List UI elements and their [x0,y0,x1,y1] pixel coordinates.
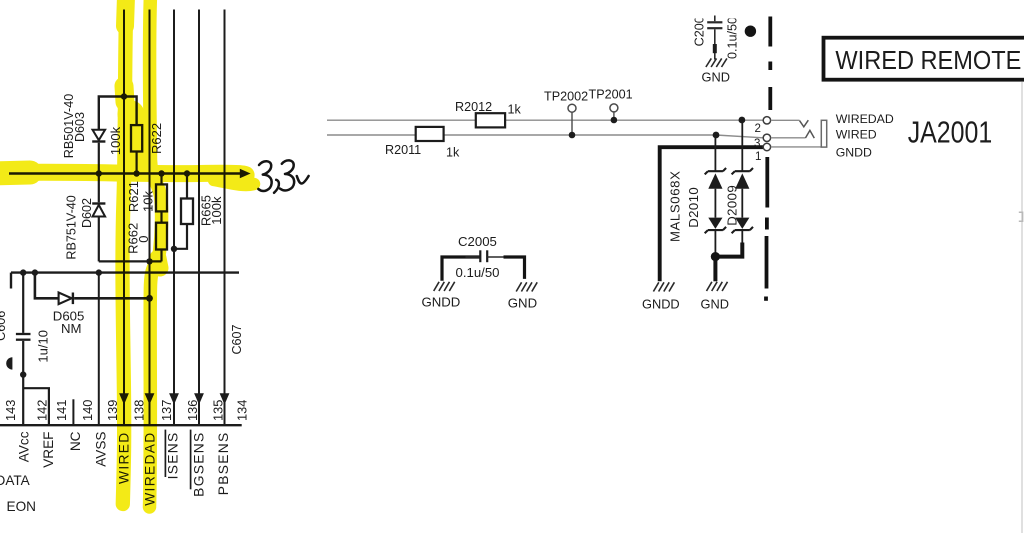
test point TP2001 [589,88,633,124]
pin label PBSENS [216,432,231,496]
pin label NC [68,431,83,451]
junction rail/R665 [184,170,190,176]
wire AVSS vertical (to pin 140) [98,273,100,425]
svg-text:GND: GND [702,70,730,85]
svg-text:AVSS: AVSS [94,432,109,467]
svg-text:100k: 100k [209,196,224,225]
junction bus/D605 branch [32,269,38,275]
junction on WIRED at top jog [121,93,127,99]
svg-text:EON: EON [7,499,36,514]
svg-text:141: 141 [54,400,69,421]
resistor R622 100k [108,123,164,172]
diode D602 RB751V-40 [65,175,106,262]
jack pin 1 terminal [755,143,771,163]
half-disc component cut at left edge [6,357,12,369]
junction WIREDAD/D605 [146,295,153,302]
pin number 138 [132,400,147,421]
svg-text:C2005: C2005 [458,234,497,249]
jack sleeve symbol [821,120,826,147]
pin label BGSENS with overline [191,430,207,497]
svg-text:VREF: VREF [41,432,56,468]
capacitor C2004 at top edge (cut) [693,9,740,59]
svg-text:WIREDAD: WIREDAD [836,112,894,126]
svg-text:RB751V-40: RB751V-40 [65,195,79,259]
pin label AVcc [17,431,32,462]
wire ISENS vertical line (to pin 137) [169,10,179,426]
svg-text:PBSENS: PBSENS [216,432,231,496]
pin number 134 [235,400,250,421]
pin label WIREDAD [143,432,158,506]
junction WIREDAD/node [146,258,152,264]
TVS diode D2009 (MALS068X) [724,120,753,243]
wire PBSENS vertical line (to pin 135) [220,10,230,426]
svg-text:140: 140 [80,400,95,421]
svg-text:135: 135 [210,400,225,421]
jack contact pin 3 [771,130,822,147]
boundary dash-dot line [766,17,770,301]
wire WIREDAD horizontal (to jack pin 2) [327,119,763,121]
svg-text:WIRED REMOTE: WIRED REMOTE [835,47,1021,75]
jack pin 2 terminal [755,117,771,136]
jack contact pin 2 [771,120,809,127]
resistor R662 0 [126,223,167,262]
junction ISENS/R665 [171,246,177,252]
wire pin141 stub [72,399,74,425]
svg-text:GND: GND [701,297,729,312]
ground symbol GNDD (jack) [653,282,674,291]
pin number 142 [34,400,49,421]
wire WIRED horizontal (to jack pin 3) [327,135,763,138]
svg-text:BGSENS: BGSENS [191,432,206,497]
thick GNDD wire (jack sleeve to ground) [660,147,764,281]
svg-text:R2012: R2012 [455,100,492,114]
pin label ISENS with overline [165,430,180,480]
svg-text:D2010: D2010 [686,187,701,228]
wire BGSENS vertical line (to pin 136) [194,10,204,426]
capacitor C606 partial label at edge [0,311,8,341]
svg-text:ISENS: ISENS [165,432,180,480]
ground symbol GNDD (C2005) [434,282,455,291]
wire node D602/R662/WIREDAD [99,260,162,262]
svg-text:GNDD: GNDD [642,297,680,312]
page edge faint line [1021,82,1023,533]
pin number 137 [159,400,174,421]
resistor R665 100k [174,175,224,249]
pin number 136 [185,400,200,421]
junction thick GND node [711,252,720,261]
junction WIRED/D2010 [713,132,720,139]
jack pin 3 terminal [754,134,771,150]
svg-text:C606: C606 [0,311,8,341]
svg-text:AVcc: AVcc [17,431,32,462]
pin number 139 [105,400,120,421]
svg-text:TP2001: TP2001 [589,88,633,102]
svg-text:WIRED: WIRED [836,128,877,142]
wire WIRED vertical line (to pin 139) [119,10,129,426]
junction rail/R621 [158,170,164,176]
wire pin143 and pin142 leads [23,375,49,425]
svg-text:1k: 1k [508,102,522,116]
pin label AVSS [94,432,109,467]
ground symbol GND (C2005) [516,282,537,291]
svg-text:0.1u/50: 0.1u/50 [456,265,500,280]
resistor R2012 1k [455,100,522,128]
pin number 143 [3,400,18,421]
ground symbol GND (TVS) [707,282,728,291]
svg-text:NM: NM [61,321,82,336]
capacitor 1u/10 [16,274,51,375]
svg-text:0: 0 [136,236,151,243]
svg-text:DATA: DATA [0,473,31,488]
wire top node jog (D603/R622 to WIRED) [99,97,137,130]
svg-text:1k: 1k [446,145,460,159]
wire 3.3V rail with arrow [9,169,251,179]
diode D605 NM [35,273,150,336]
resistor R2011 1k [385,127,460,159]
svg-text:NC: NC [68,431,83,451]
junction rail/R622 [133,170,139,176]
TVS diode D2010 (MALS068X) upper string [667,135,726,253]
svg-text:GNDD: GNDD [422,294,461,309]
svg-text:R2011: R2011 [385,143,421,157]
svg-text:D2009: D2009 [724,185,739,226]
svg-text:MALS068X: MALS068X [667,171,682,243]
junction C606/pin143 node [20,371,26,377]
svg-text:GND: GND [508,295,537,310]
svg-text:2: 2 [755,122,761,135]
svg-text:TP2002: TP2002 [544,89,588,103]
svg-text:142: 142 [34,400,49,421]
svg-text:143: 143 [3,400,18,421]
thick wire D2009/D2010 to GND [715,243,742,282]
junction bus/C606 cap [20,269,26,275]
capacitor C607 label [230,324,244,354]
node 3,3v handwritten annotation [258,160,308,192]
svg-text:1: 1 [755,150,761,163]
junction bus/AVSS line [96,269,102,275]
svg-text:1u/10: 1u/10 [35,330,50,363]
svg-text:3: 3 [754,137,760,150]
ground symbol GND (C2004) [706,58,727,67]
svg-text:134: 134 [235,400,250,421]
svg-text:137: 137 [159,400,174,421]
svg-text:GNDD: GNDD [836,145,872,159]
pin label WIRED [117,432,132,485]
pin label VREF [41,432,56,468]
highlighter stroke over 3.3V rail [0,0,254,507]
pin number 135 [210,400,225,421]
svg-text:136: 136 [185,400,200,421]
junction dot artifact near top edge [745,26,756,37]
svg-text:0.1u/50: 0.1u/50 [726,17,740,59]
svg-text:JA2001: JA2001 [908,115,993,150]
page edge bracket mark [1019,212,1023,221]
frame box WIRED REMOTE [824,38,1024,80]
IC edge line [0,424,242,426]
svg-text:D602: D602 [80,198,94,228]
junction WIREDAD/D2009 [739,117,746,124]
pin number 141 [54,400,69,421]
svg-text:C607: C607 [230,324,244,354]
wire lower horizontal bus [11,273,239,289]
test point TP2002 [544,89,588,138]
resistor R621 10k [126,175,167,223]
svg-text:D603: D603 [73,112,87,142]
capacitor C2005 0.1u/50 [442,234,525,281]
diode D603 RB501V-40 [62,94,105,173]
pin number 140 [80,400,95,421]
wire WIREDAD vertical line (to pin 138) [145,10,155,426]
junction rail/D603 [96,170,102,176]
